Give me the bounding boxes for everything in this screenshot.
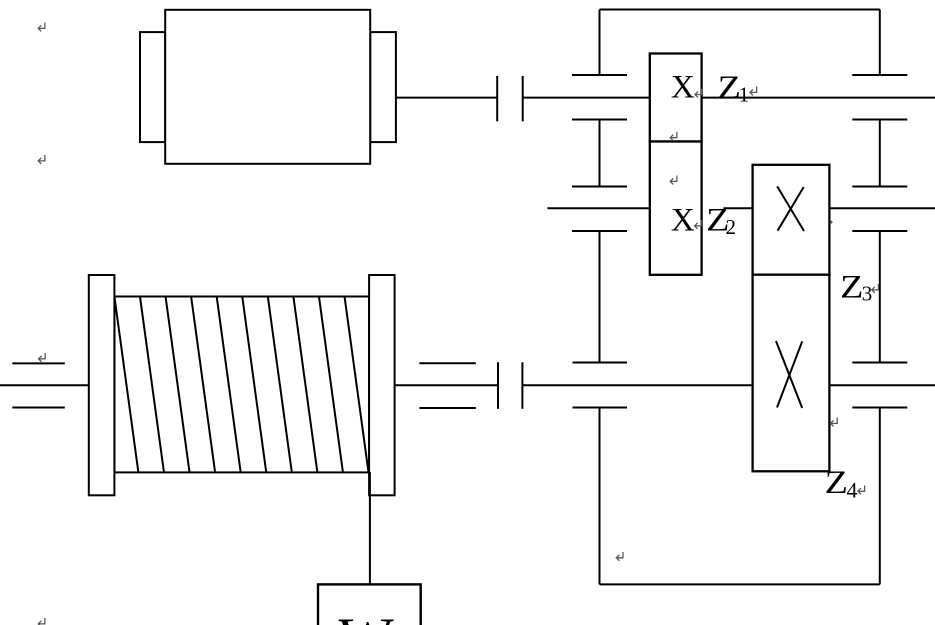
svg-text:2: 2 — [726, 215, 737, 239]
svg-text:Z: Z — [825, 465, 848, 501]
svg-text:4: 4 — [847, 477, 858, 502]
svg-text:1: 1 — [739, 82, 750, 106]
svg-text:3: 3 — [862, 282, 873, 306]
svg-text:X: X — [671, 70, 695, 106]
svg-text:X: X — [671, 203, 695, 239]
svg-text:Z: Z — [718, 70, 741, 106]
svg-text:W: W — [339, 605, 395, 625]
svg-text:Z: Z — [840, 269, 863, 305]
